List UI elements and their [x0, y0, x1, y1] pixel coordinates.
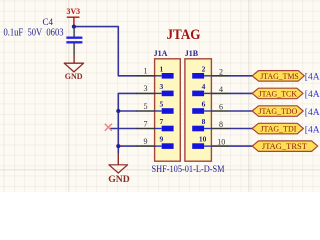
connector J1A body: [155, 59, 181, 161]
svg-text:6: 6: [219, 103, 223, 112]
svg-text:3: 3: [160, 82, 164, 91]
wire 3V3 net to pin 1: [74, 27, 137, 76]
svg-text:9: 9: [144, 137, 148, 146]
J1A pin 5: [136, 100, 173, 114]
J1A pin 9: [136, 135, 173, 149]
wire pin2 to port: [229, 75, 252, 77]
connector J1B body: [185, 59, 212, 161]
svg-text:GND: GND: [108, 174, 130, 184]
J1B pin 6: [192, 100, 229, 114]
svg-text:[4A: [4A: [305, 125, 320, 135]
svg-text:6: 6: [202, 100, 206, 109]
wire pin8 to port: [229, 128, 252, 130]
svg-text:5: 5: [144, 102, 148, 111]
svg-text:8: 8: [219, 120, 223, 129]
svg-text:2: 2: [202, 64, 206, 73]
svg-text:C4: C4: [43, 17, 54, 27]
svg-text:8: 8: [202, 117, 206, 126]
svg-text:10: 10: [217, 138, 225, 147]
port JTAG_TDO: [252, 106, 303, 117]
svg-text:3V3: 3V3: [67, 6, 81, 16]
svg-text:[4A: [4A: [305, 108, 320, 118]
port JTAG_TRST: [252, 141, 318, 152]
svg-text:3: 3: [144, 84, 148, 93]
port JTAG_TCK: [252, 88, 303, 99]
ground below C4: [64, 56, 83, 81]
svg-text:7: 7: [160, 117, 164, 126]
svg-text:1: 1: [144, 67, 148, 76]
wire pin 5 branch: [118, 110, 137, 112]
svg-text:2: 2: [219, 67, 223, 76]
svg-text:[4A: [4A: [305, 73, 320, 83]
no-ERC cross: [105, 124, 112, 131]
svg-text:J1A: J1A: [154, 49, 168, 58]
svg-text:5: 5: [160, 100, 164, 109]
svg-text:JTAG_TMS: JTAG_TMS: [260, 72, 299, 81]
wire pin10 to port: [229, 145, 252, 147]
capacitor C4: [66, 29, 82, 56]
junction dot pin9: [116, 144, 120, 148]
svg-text:JTAG_TCK: JTAG_TCK: [259, 89, 298, 98]
wire pin 9 branch: [118, 145, 137, 147]
svg-text:SHF-105-01-L-D-SM: SHF-105-01-L-D-SM: [152, 164, 225, 174]
svg-text:0.1uF 50V 0603: 0.1uF 50V 0603: [4, 27, 64, 38]
J1B pin 4: [192, 82, 229, 96]
J1B pin 10: [192, 135, 229, 149]
svg-text:4: 4: [202, 82, 206, 91]
svg-text:JTAG_TDO: JTAG_TDO: [258, 107, 297, 116]
svg-text:[4A: [4A: [305, 90, 320, 100]
svg-text:1: 1: [160, 64, 164, 73]
svg-text:4: 4: [219, 85, 223, 94]
port JTAG_TMS: [252, 71, 304, 82]
power symbol 3V3: [67, 6, 81, 27]
svg-text:10: 10: [199, 135, 207, 144]
J1B pin 2: [192, 64, 229, 78]
J1A pin 3: [136, 82, 173, 96]
ground below J1 bus: [108, 154, 130, 184]
svg-text:JTAG_TDI: JTAG_TDI: [260, 125, 296, 134]
J1B pin 8: [192, 117, 229, 131]
wire pin6 to port: [229, 110, 252, 112]
junction dot 3V3/C4: [72, 25, 76, 29]
junction dot pin5: [116, 109, 120, 113]
J1A pin 7: [136, 117, 173, 131]
svg-text:GND: GND: [65, 72, 83, 81]
wire pin 7 stub (no connect): [110, 128, 137, 130]
wire GND bus from pin 3 down: [118, 93, 137, 153]
svg-text:JTAG: JTAG: [167, 27, 201, 43]
svg-text:J1B: J1B: [185, 49, 199, 58]
wire pin4 to port: [229, 92, 252, 94]
svg-text:JTAG_TRST: JTAG_TRST: [262, 142, 307, 151]
port JTAG_TDI: [252, 123, 303, 134]
J1A pin 1: [136, 64, 173, 78]
svg-text:7: 7: [144, 119, 148, 128]
svg-text:9: 9: [160, 135, 164, 144]
